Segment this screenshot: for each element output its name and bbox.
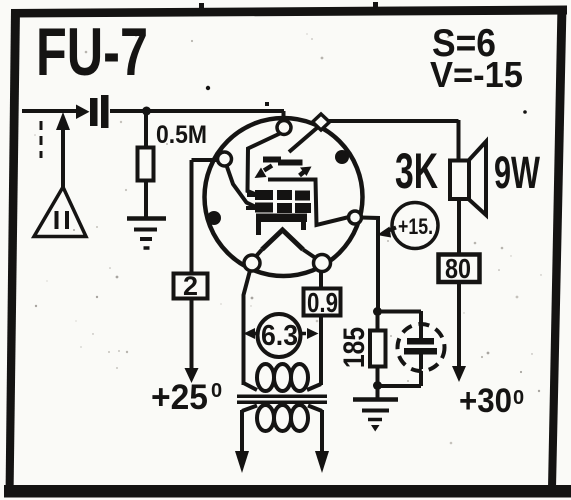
svg-text:0: 0 <box>211 380 222 402</box>
svg-text:6.3: 6.3 <box>261 320 298 352</box>
svg-text:3K: 3K <box>395 143 438 199</box>
svg-text:185: 185 <box>338 327 371 368</box>
svg-text:0.5M: 0.5M <box>156 121 207 149</box>
svg-text:+25: +25 <box>151 378 208 417</box>
svg-text:V=-15: V=-15 <box>430 54 523 95</box>
svg-text:0: 0 <box>513 387 524 409</box>
svg-text:FU-7: FU-7 <box>36 14 148 90</box>
svg-text:2: 2 <box>183 271 198 301</box>
svg-text:+30: +30 <box>459 382 512 420</box>
svg-text:80: 80 <box>445 253 471 284</box>
svg-text:9W: 9W <box>494 147 540 198</box>
svg-text:+15.: +15. <box>398 214 433 239</box>
svg-text:0.9: 0.9 <box>307 287 338 318</box>
